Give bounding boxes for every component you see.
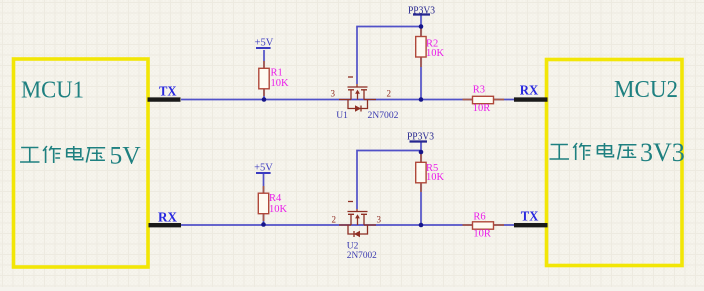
svg-text:10K: 10K	[271, 78, 290, 89]
svg-text:R3: R3	[473, 85, 485, 96]
svg-text:10R: 10R	[473, 229, 491, 240]
svg-text:RX: RX	[520, 84, 539, 99]
svg-text:2N7002: 2N7002	[347, 251, 377, 261]
svg-text:U1: U1	[336, 111, 348, 121]
svg-text:2N7002: 2N7002	[368, 111, 399, 121]
svg-text:TX: TX	[521, 210, 539, 225]
svg-text:5V: 5V	[110, 141, 142, 170]
svg-text:R4: R4	[269, 193, 282, 204]
svg-text:U2: U2	[347, 242, 359, 252]
svg-text:10K: 10K	[426, 48, 445, 59]
svg-text:3V3: 3V3	[640, 138, 685, 167]
svg-text:10K: 10K	[426, 172, 445, 183]
svg-text:10R: 10R	[473, 103, 491, 114]
svg-text:3: 3	[377, 215, 382, 225]
svg-text:R6: R6	[473, 212, 485, 223]
svg-text:R1: R1	[271, 68, 283, 79]
svg-text:MCU1: MCU1	[21, 77, 84, 104]
svg-text:2: 2	[332, 215, 337, 225]
svg-text:3: 3	[331, 89, 336, 99]
svg-text:MCU2: MCU2	[614, 76, 678, 103]
svg-text:TX: TX	[159, 85, 177, 100]
svg-text:+5V: +5V	[254, 163, 273, 174]
svg-text:2: 2	[387, 89, 392, 99]
svg-text:RX: RX	[158, 211, 177, 226]
svg-text:PP3V3: PP3V3	[407, 131, 434, 143]
svg-text:PP3V3: PP3V3	[408, 5, 435, 17]
svg-text:+5V: +5V	[255, 38, 274, 49]
svg-text:10K: 10K	[269, 204, 288, 215]
